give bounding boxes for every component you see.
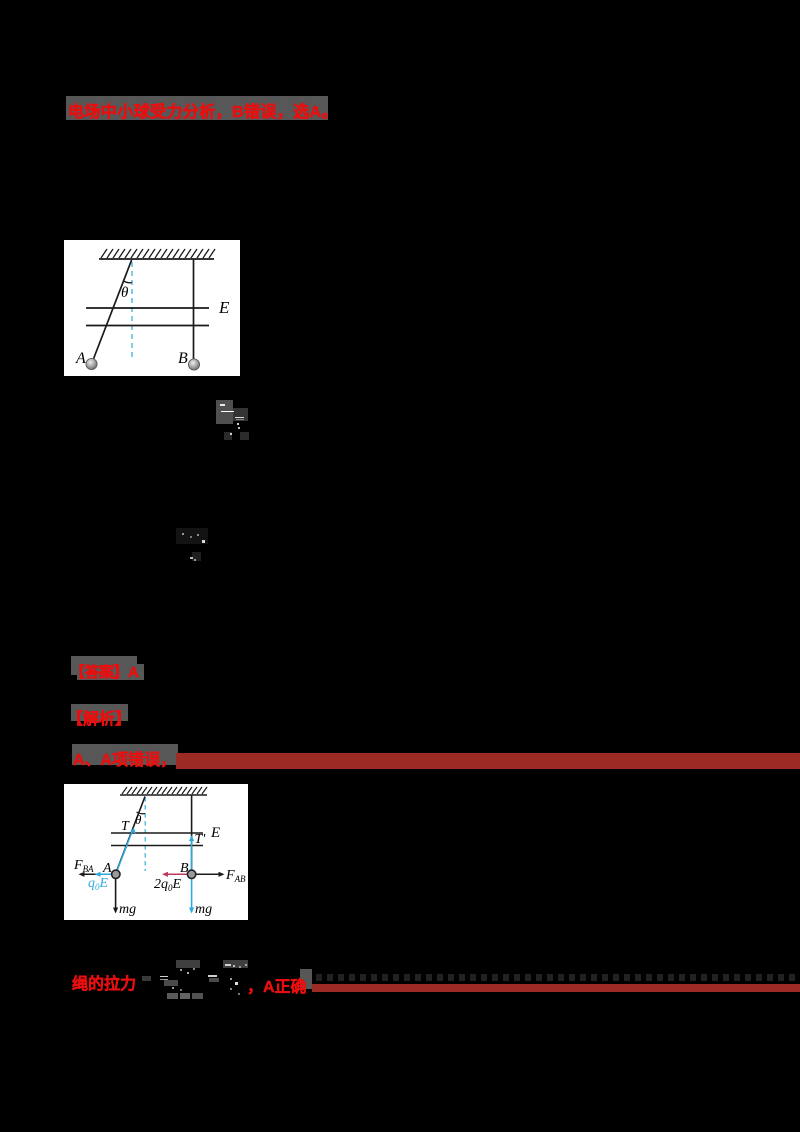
svg-text:θ: θ	[121, 285, 129, 301]
svg-text:θ: θ	[135, 812, 142, 827]
angle arc	[124, 281, 133, 283]
ball B	[188, 359, 199, 370]
small gray equals	[142, 976, 151, 981]
plates	[111, 832, 203, 834]
string A	[92, 260, 132, 364]
2q0E pink arrow	[165, 873, 190, 875]
plates	[86, 307, 209, 309]
T arrow cyan (tension on A)	[116, 831, 133, 875]
F_AB black arrow	[193, 873, 221, 875]
svg-text:mg: mg	[119, 902, 136, 917]
line A	[72, 744, 178, 765]
答案	[71, 656, 137, 675]
bottom math cluster 1	[160, 955, 210, 1000]
svg-text:T': T'	[195, 832, 207, 847]
heading red text	[68, 98, 338, 122]
解析	[71, 704, 128, 721]
faint math 2	[176, 528, 208, 562]
svg-text:B: B	[178, 350, 188, 367]
dashed vertical line	[131, 262, 133, 358]
diagram 2	[64, 784, 248, 925]
svg-text:mg: mg	[195, 902, 212, 917]
string B	[193, 259, 195, 364]
svg-text:E: E	[218, 298, 230, 317]
mg arrow A black	[115, 875, 117, 910]
ball A	[86, 358, 97, 369]
svg-text:2q0E: 2q0E	[154, 877, 182, 893]
svg-text:A: A	[75, 350, 86, 367]
heading gray highlight	[66, 96, 328, 120]
dashed vertical	[144, 797, 146, 871]
T' arrow cyan (tension on B)	[191, 839, 193, 875]
svg-text:A: A	[102, 861, 112, 876]
angle arc	[137, 812, 146, 814]
bottom line red text	[72, 970, 136, 994]
bottom dark red bar	[312, 984, 800, 993]
bottom math cluster 2	[208, 955, 258, 1000]
ball B	[187, 870, 195, 878]
bottom red text 2	[300, 969, 312, 989]
ceiling line	[120, 794, 207, 796]
q0E cyan arrow	[98, 873, 115, 875]
diagram 1	[64, 240, 240, 381]
ceiling line	[99, 258, 214, 260]
ceiling hatches	[101, 249, 215, 258]
mg arrow B cyan	[191, 875, 193, 910]
string B	[191, 795, 193, 874]
ball A	[112, 870, 120, 878]
F_BA black arrow	[82, 873, 114, 875]
string A black	[116, 797, 146, 875]
faint math 1	[216, 399, 250, 441]
speckle row	[316, 974, 800, 981]
svg-text:E: E	[210, 825, 220, 841]
svg-text:T: T	[121, 819, 130, 834]
bottom red text 2	[247, 973, 307, 997]
